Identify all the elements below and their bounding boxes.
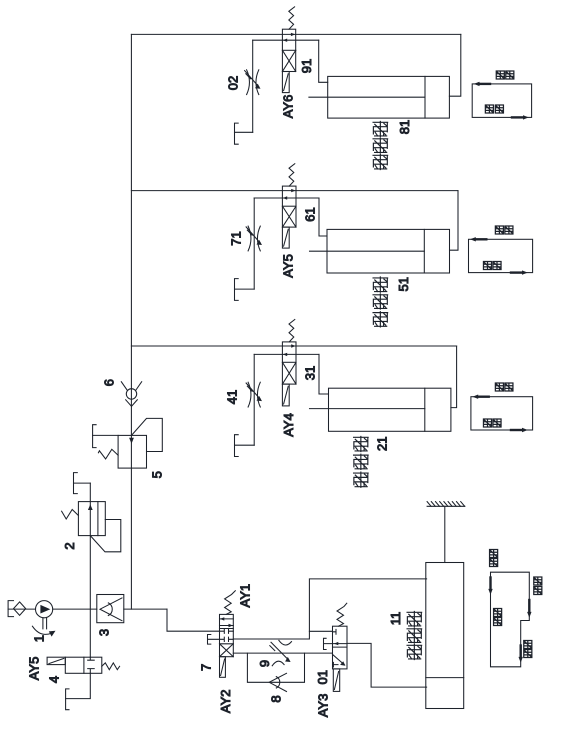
- label 7: [198, 664, 213, 671]
- svg-text:81: 81: [397, 120, 412, 134]
- svg-text:02: 02: [226, 76, 241, 90]
- label 1: [32, 635, 47, 642]
- label return C (2 CJK): [483, 419, 501, 427]
- spring valve 4: [102, 663, 120, 670]
- svg-text:11: 11: [388, 612, 403, 626]
- valve 7 body: [220, 614, 234, 656]
- label 6YA: [281, 95, 296, 119]
- wire valve 7 B-port to valve 10: [233, 652, 332, 654]
- label work feed (2 CJK): [524, 640, 532, 657]
- wire valve 4 to tank: [66, 673, 91, 698]
- valve 13: [282, 342, 296, 384]
- spring valve 19: [289, 7, 295, 29]
- label 5: [149, 471, 164, 478]
- tank (valve 7 T port): [208, 635, 220, 645]
- svg-text:AY1: AY1: [238, 584, 253, 608]
- label 6: [102, 379, 117, 386]
- cycle box B: [469, 237, 533, 275]
- label 9: [257, 660, 272, 667]
- label 4YA: [281, 413, 296, 437]
- svg-text:61: 61: [303, 207, 318, 221]
- svg-text:41: 41: [225, 390, 240, 404]
- pilot line valve 5: [132, 418, 163, 451]
- relief valve 5: [98, 435, 146, 468]
- wire throttle 20 drain: [235, 131, 253, 133]
- label 5YA (valve 4): [27, 657, 42, 681]
- svg-text:21: 21: [375, 437, 390, 451]
- svg-text:8: 8: [269, 695, 284, 702]
- cylinder 12: [310, 388, 451, 431]
- valve 19: [282, 29, 295, 71]
- svg-text:4: 4: [47, 676, 62, 683]
- tank (throttle 17): [235, 279, 239, 301]
- throttle valve 17: [246, 198, 262, 289]
- cycle box 11: [488, 572, 531, 667]
- label 16: [303, 207, 318, 221]
- anchor (fixed support): [427, 502, 465, 507]
- spring valve 10: [337, 603, 347, 626]
- cylinder 15: [310, 229, 450, 273]
- wire tank to valve 5: [93, 434, 119, 436]
- label clamp (2 CJK): [496, 71, 514, 79]
- svg-text:AY3: AY3: [316, 694, 331, 718]
- label 5YA (valve 16): [281, 254, 296, 278]
- svg-text:AY4: AY4: [281, 413, 296, 437]
- tank (throttle 14): [235, 435, 239, 457]
- svg-text:6: 6: [102, 379, 117, 386]
- throttle valve 20: [245, 40, 261, 132]
- wire A lower line: [253, 39, 319, 41]
- label 3: [97, 629, 112, 636]
- svg-text:2: 2: [62, 542, 77, 549]
- wire C riser to rod end: [451, 346, 457, 408]
- solenoid 6YA (valve 19): [282, 72, 289, 93]
- solenoid 3YA (valve 10): [333, 669, 339, 692]
- pump 1: [32, 601, 55, 637]
- label 15: [396, 277, 411, 291]
- spring valve 7: [225, 591, 236, 615]
- wire valve 10 to cylinder 11 cap side: [347, 643, 427, 687]
- solenoid 2YA (valve 7): [220, 657, 226, 678]
- svg-text:AY6: AY6: [281, 95, 296, 119]
- label feed cylinder (3 CJK): [354, 436, 369, 487]
- label 12: [375, 437, 390, 451]
- wire throttle 14 drain: [235, 444, 255, 446]
- svg-text:AY5: AY5: [281, 254, 296, 278]
- svg-text:1: 1: [32, 635, 47, 642]
- solenoid 4YA (valve 13): [282, 384, 289, 406]
- label 1YA: [238, 584, 253, 608]
- valve 2: [62, 502, 106, 536]
- cycle box A: [472, 82, 531, 120]
- label 8: [269, 695, 284, 702]
- label release (2 CJK): [485, 105, 503, 113]
- wire valve 7 A-port to cylinder 11 rod side: [233, 579, 426, 639]
- tank (valve 2 outlet): [74, 473, 78, 494]
- solenoid 5YA (valve 16): [282, 227, 289, 248]
- wire tank to valve 2: [74, 482, 91, 484]
- svg-text:3: 3: [97, 629, 112, 636]
- svg-text:91: 91: [299, 59, 314, 73]
- check valve 8: [269, 673, 286, 691]
- wire B riser to rod end: [450, 191, 459, 251]
- tank (valve 5): [93, 425, 97, 448]
- wire A step to cap end: [319, 40, 328, 82]
- valve 10 body: [333, 626, 348, 669]
- wire manifold vertical: [130, 34, 132, 609]
- pilot line valve 2: [90, 520, 121, 552]
- svg-text:51: 51: [396, 277, 411, 291]
- label 10: [315, 670, 330, 684]
- throttle valve 14: [246, 354, 262, 445]
- wire throttle 17 drain: [235, 288, 255, 290]
- check valve 6: [121, 382, 141, 407]
- solenoid valve 4: [47, 657, 65, 664]
- wire bypass loop: [247, 653, 304, 682]
- wire pump discharge: [53, 608, 167, 610]
- wire A riser to rod end: [449, 34, 460, 96]
- label fast advance (2 CJK): [534, 577, 542, 595]
- label 17: [229, 231, 244, 245]
- tank (throttle 20): [235, 123, 239, 144]
- label feed (2 CJK): [495, 383, 513, 391]
- svg-text:AY2: AY2: [218, 689, 233, 713]
- wire B pressure line: [131, 190, 458, 192]
- wire rod line to valve 10 top port: [309, 630, 332, 632]
- label return B (2 CJK): [483, 261, 501, 269]
- label drill cylinder (3 CJK): [407, 611, 422, 659]
- label 14: [225, 390, 240, 404]
- wire C pressure line: [131, 345, 456, 347]
- label 20: [226, 76, 241, 90]
- label 2: [62, 542, 77, 549]
- check valve 3: [97, 595, 124, 623]
- svg-text:7: 7: [198, 664, 213, 671]
- wire B lower line: [254, 197, 319, 199]
- label 18: [397, 120, 412, 134]
- wire supply riser: [167, 609, 220, 631]
- svg-text:71: 71: [229, 231, 244, 245]
- valve 16: [282, 186, 296, 227]
- wire C lower line: [254, 353, 319, 355]
- cylinder 11: [426, 506, 464, 708]
- spring valve 13: [289, 320, 295, 342]
- wire A pressure line: [131, 33, 460, 35]
- wire suction: [8, 608, 35, 610]
- label 2YA: [218, 689, 233, 713]
- wire C step to cap end: [319, 354, 329, 394]
- svg-text:5: 5: [149, 471, 164, 478]
- label 4: [47, 676, 62, 683]
- label 3YA: [316, 694, 331, 718]
- svg-text:9: 9: [257, 660, 272, 667]
- label load clamp (2 CJK): [495, 226, 513, 234]
- valve 4: [65, 657, 102, 673]
- label clamp cylinder (3 CJK): [373, 121, 388, 169]
- throttle valve 9: [270, 640, 292, 665]
- wire B step to cap end: [319, 198, 327, 236]
- tank (valve 4): [66, 689, 69, 710]
- filter (suction strainer): [14, 602, 26, 615]
- label fast return (2 CJK): [494, 608, 502, 625]
- label 13: [303, 366, 318, 380]
- cycle box C: [471, 395, 533, 433]
- tank (valve 10): [324, 638, 333, 649]
- label 19: [299, 59, 314, 73]
- label stop (2 CJK): [490, 549, 498, 566]
- label fixture cylinder (3 CJK): [373, 277, 388, 327]
- spring valve 16: [289, 164, 295, 186]
- svg-text:31: 31: [303, 366, 318, 380]
- label 11: [388, 612, 403, 626]
- wire unloading branch (vertical x=90.3): [89, 483, 91, 657]
- tank (pump suction): [8, 601, 13, 617]
- svg-text:01: 01: [315, 670, 330, 684]
- cylinder 18: [309, 76, 450, 118]
- svg-text:AY5: AY5: [27, 657, 42, 681]
